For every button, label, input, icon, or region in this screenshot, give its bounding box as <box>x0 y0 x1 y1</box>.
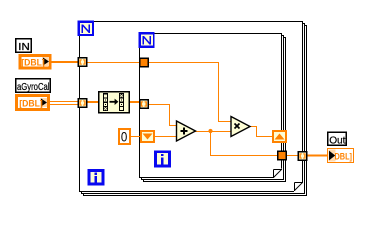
IN auto-indexing tunnel on outer loop <box>78 57 88 67</box>
add node <box>177 121 196 141</box>
wire outer tunnel to reverse-array icon (1-D array, 2px) <box>83 101 98 103</box>
inner loop count terminal N <box>139 32 155 48</box>
inner loop iteration terminal i <box>154 150 171 167</box>
left shift register <box>141 131 154 142</box>
reverse 1D array icon <box>98 91 130 114</box>
wire between inner output tunnel and outer output tunnel <box>286 155 298 157</box>
svg-text:[DBL]: [DBL] <box>19 98 43 108</box>
aGyroCal auto-indexing tunnel on inner loop <box>139 99 149 109</box>
aGyroCal label <box>15 78 51 93</box>
IN label <box>15 38 32 53</box>
output non-indexing tunnel on inner loop <box>277 151 287 161</box>
IN non-indexing tunnel on inner loop <box>139 58 149 68</box>
aGyroCal auto-indexing tunnel on outer loop <box>78 98 88 108</box>
wire reverse-array icon to inner tunnel (1-D array, 2px) <box>130 101 140 103</box>
inner for loop frame 2 <box>142 36 284 180</box>
outer for loop frame 3 <box>84 26 307 196</box>
wire aGyroCal inside inner loop to add upper input <box>147 105 177 126</box>
svg-text:0: 0 <box>121 128 128 144</box>
inner for loop frame 1 <box>140 34 282 178</box>
0 constant <box>119 128 130 144</box>
right shift register <box>273 131 286 142</box>
svg-text:DBL]: DBL] <box>335 151 353 161</box>
svg-text:[DBL]: [DBL] <box>21 57 45 67</box>
outer loop iteration terminal i <box>88 169 105 186</box>
multiply node <box>231 117 250 137</box>
IN control terminal [DBL] <box>20 56 50 68</box>
inner for loop frame 3 <box>144 38 286 182</box>
wire 0 constant to left shift register <box>130 136 141 138</box>
outer for loop frame 1 <box>80 22 303 192</box>
wire multiply output to right shift register <box>250 127 272 137</box>
junction dot <box>208 129 212 133</box>
wire IN inside inner loop to multiply upper input <box>148 63 231 122</box>
outer loop count terminal N <box>78 21 95 37</box>
wire aGyroCal terminal to outer tunnel (2-D array, double line) <box>50 102 79 105</box>
svg-text:Out: Out <box>329 135 345 146</box>
wire IN terminal to outer tunnel (1-D array, 2px) <box>51 61 79 63</box>
svg-text:aGyroCal: aGyroCal <box>17 82 50 93</box>
output auto-indexing tunnel on outer loop <box>298 151 308 161</box>
svg-text:IN: IN <box>18 42 30 53</box>
wire left shift register to add lower input <box>155 136 177 138</box>
Out label <box>327 132 347 147</box>
outer for loop frame 2 <box>82 24 305 194</box>
outer loop folded corner <box>294 182 303 192</box>
inner loop folded corner <box>273 169 282 179</box>
wire IN inside outer loop (scalar) <box>83 62 140 64</box>
wire outer output tunnel to Out terminal (1-D array, 2px) <box>306 155 327 157</box>
wire add output to multiply lower input <box>195 131 231 133</box>
wire branch from junction down to inner output tunnel <box>211 132 278 156</box>
Out indicator terminal [DBL] <box>328 149 354 163</box>
aGyroCal control terminal [DBL] <box>17 96 49 110</box>
